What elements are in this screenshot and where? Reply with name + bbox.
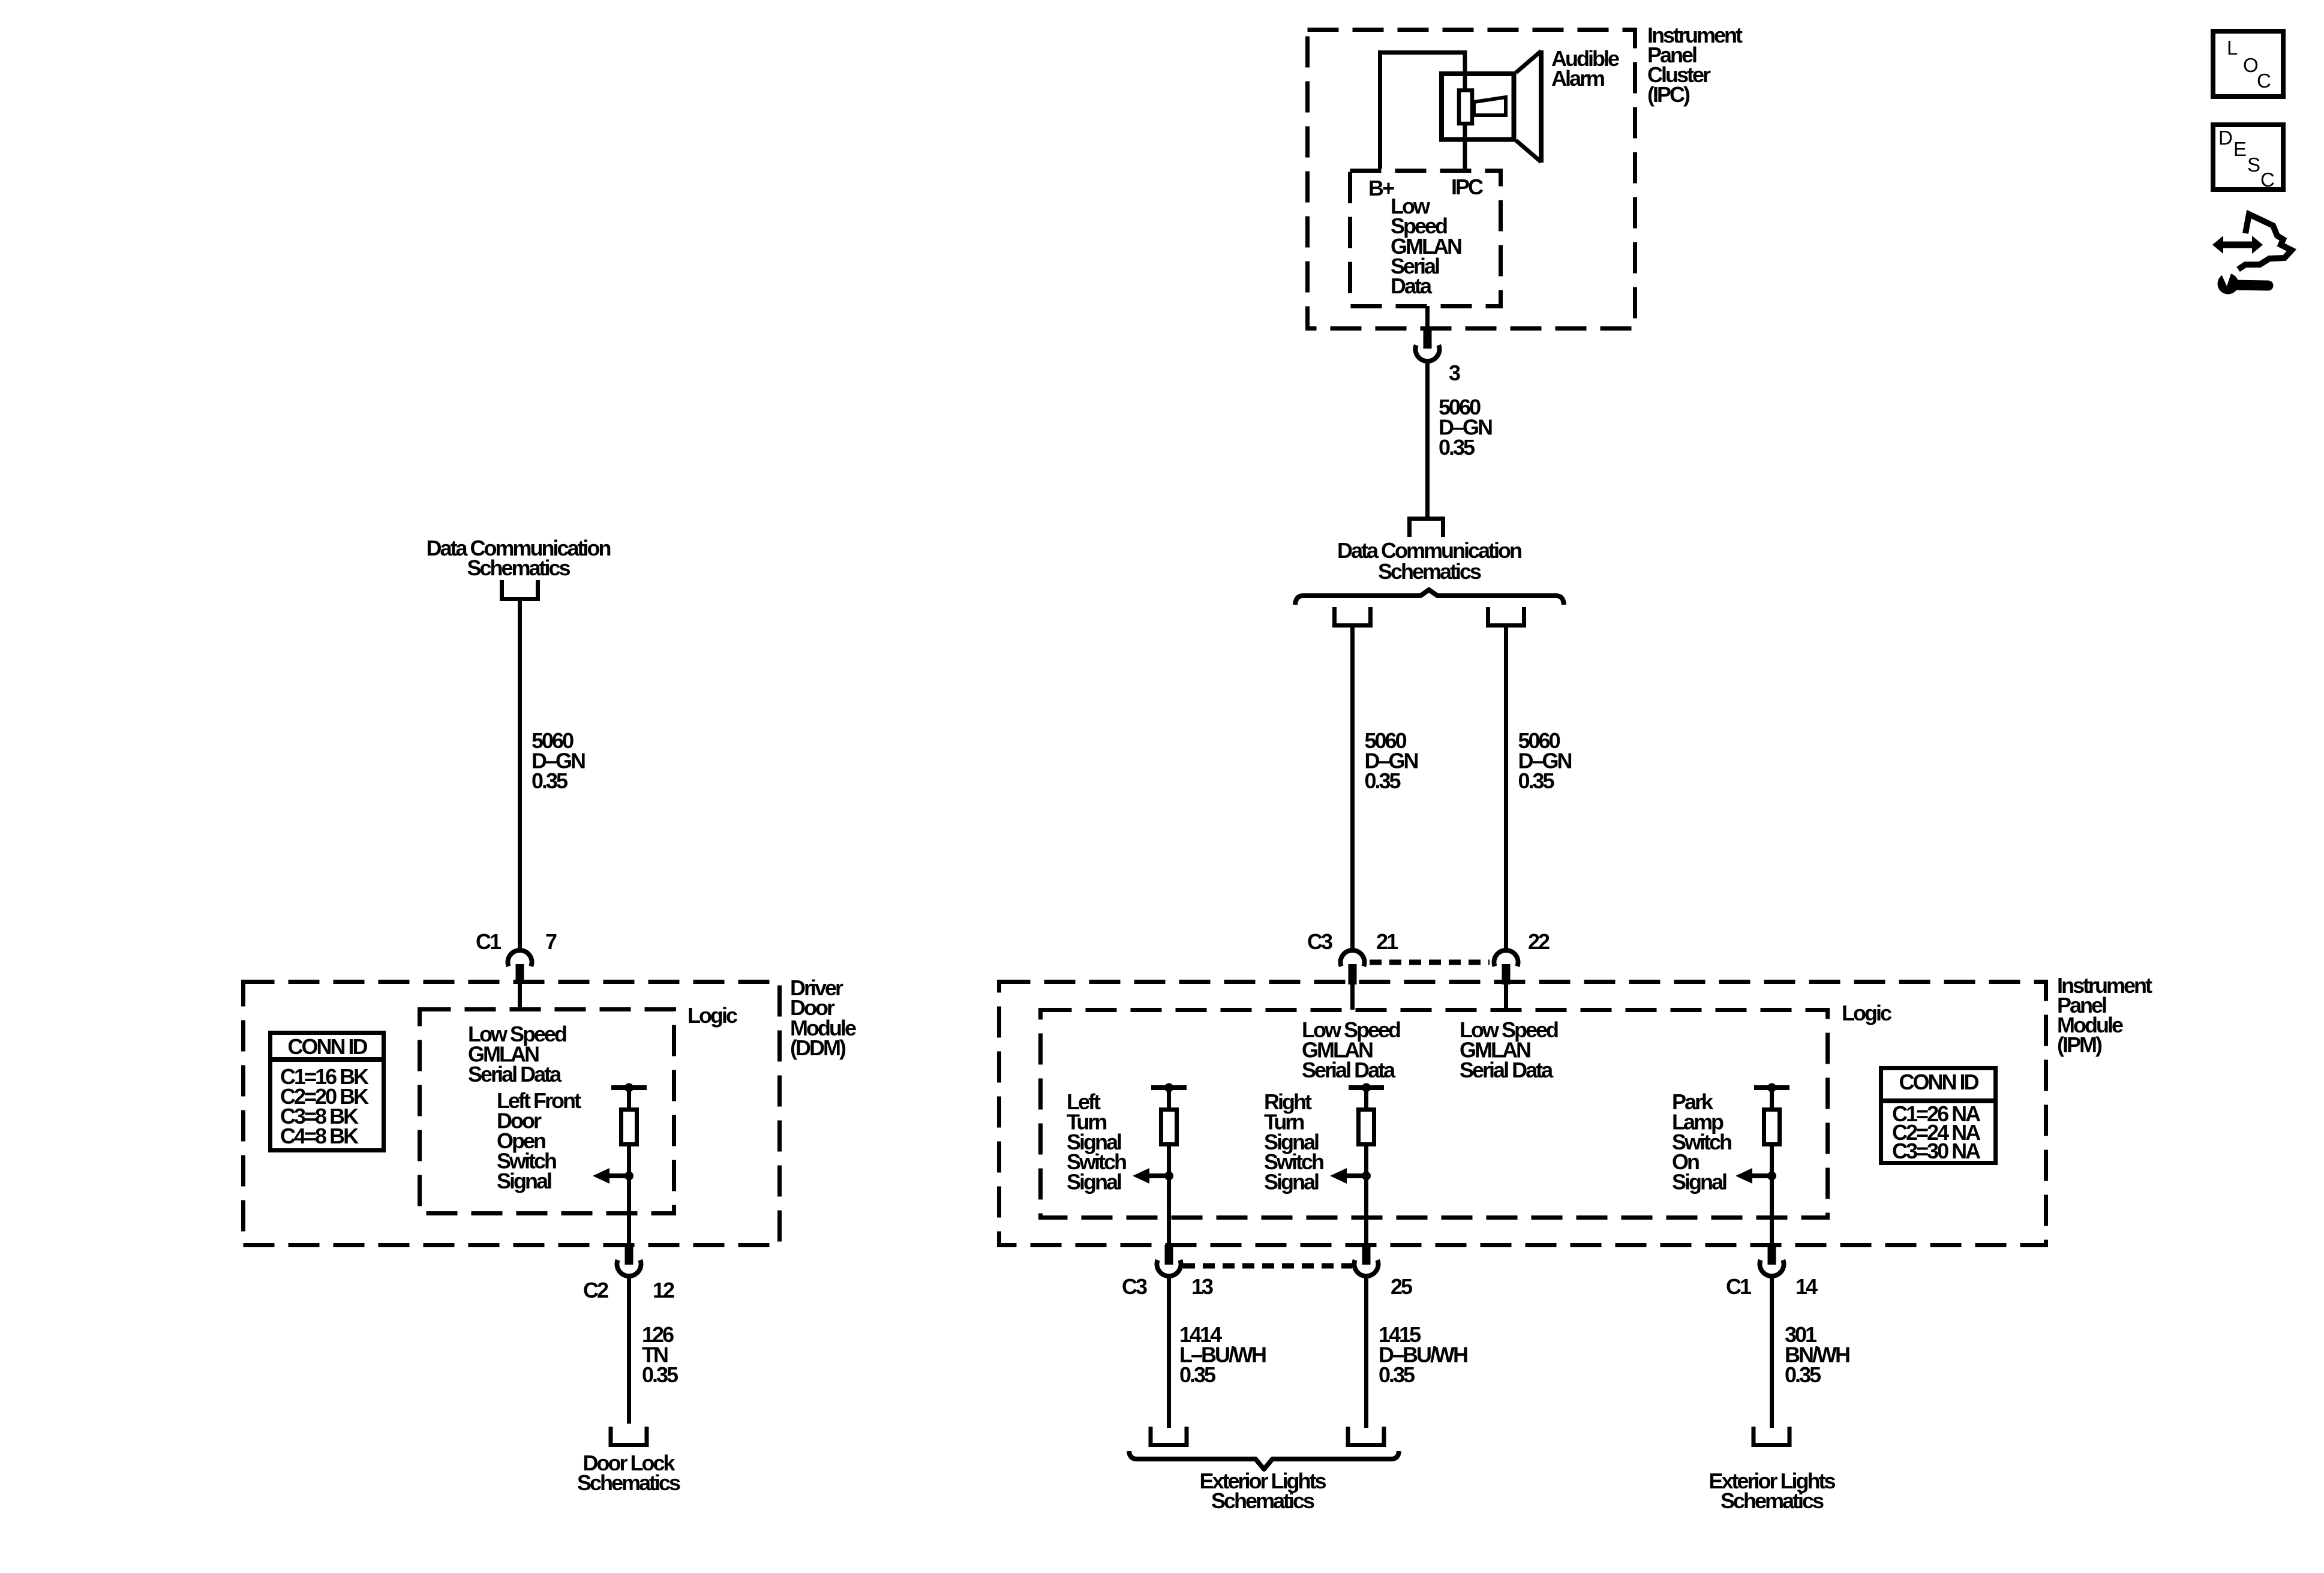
net label: B+ <box>1368 176 1394 200</box>
svg-text:C2: C2 <box>583 1278 608 1302</box>
wire: B+ feed loop to audible alarm <box>1380 53 1466 169</box>
svg-text:0.35: 0.35 <box>1518 769 1555 793</box>
off-page connector: wire 1415 to Exterior Lights Schematics <box>1348 1427 1384 1445</box>
pin number 21 <box>1376 929 1398 954</box>
module box: Instrument Panel Module (IPM) <box>999 982 2046 1245</box>
label: Data Communication Schematics (middle) <box>1337 538 1521 584</box>
legend box: LOC <box>2213 31 2283 97</box>
svg-text:7: 7 <box>545 929 557 954</box>
label: Instrument Panel Cluster (IPC) <box>1647 23 1743 107</box>
svg-text:Schematics: Schematics <box>1378 559 1481 584</box>
pin number 13 <box>1191 1274 1213 1299</box>
connector C3 internal tie (dashed, bottom) <box>1183 1263 1352 1269</box>
svg-text:Logic: Logic <box>1842 1001 1891 1025</box>
svg-text:0.35: 0.35 <box>1785 1362 1821 1387</box>
wire: C1 pin 7 into DDM logic <box>518 981 522 1009</box>
label: Exterior Lights Schematics (middle) <box>1199 1469 1326 1513</box>
wire label: 5060 D-GN 0.35 <box>1439 395 1492 460</box>
inner dashed box: IPC serial data logic block <box>1350 171 1501 307</box>
svg-text:CONN ID: CONN ID <box>1899 1070 1979 1094</box>
svg-text:C: C <box>2257 70 2271 92</box>
svg-text:(IPM): (IPM) <box>2057 1032 2102 1057</box>
svg-text:Alarm: Alarm <box>1551 66 1604 91</box>
off-page connector: serial data branch 1 (below brace) <box>1335 607 1371 626</box>
label: Logic (DDM) <box>687 1003 737 1028</box>
module box: Instrument Panel Cluster (IPC) <box>1308 30 1635 329</box>
label: Instrument Panel Module (IPM) <box>2057 973 2152 1057</box>
wire: C3 pin 22 into IPM logic <box>1504 981 1508 1010</box>
pin number 12 <box>653 1278 674 1302</box>
wire: C3 pin 21 into IPM logic <box>1350 981 1355 1010</box>
net label: IPC <box>1451 175 1484 199</box>
connector C3 pin 22 (IPM): female terminal <box>1494 950 1518 966</box>
connector C3 pin 25 (IPM): female terminal <box>1355 1260 1379 1276</box>
svg-text:22: 22 <box>1528 929 1550 954</box>
junction dot (park lamp tap) <box>1767 1172 1776 1181</box>
off-page connector: to Data Communication Schematics (top) <box>1410 519 1443 538</box>
svg-text:25: 25 <box>1391 1274 1413 1299</box>
svg-text:D: D <box>2218 127 2233 149</box>
svg-text:Schematics: Schematics <box>1211 1488 1314 1513</box>
wire label: 1414 L-BU/WH 0.35 <box>1179 1322 1266 1387</box>
junction dot (park lamp rail) <box>1767 1083 1776 1092</box>
junction dot (left turn tap) <box>1164 1172 1173 1181</box>
svg-text:L: L <box>2227 37 2238 59</box>
connector C3 pin 13 (IPM): female terminal <box>1157 1260 1181 1276</box>
svg-text:(IPC): (IPC) <box>1647 82 1690 107</box>
net label: Low Speed GMLAN Serial Data (pin 22) <box>1460 1017 1558 1082</box>
connector C1 pin 14 (IPM): female terminal <box>1760 1260 1784 1276</box>
svg-text:S: S <box>2247 154 2260 176</box>
wire: resistor R1 to C2 pin 12 <box>627 1146 631 1246</box>
resistor R1 (door open switch pull-up) <box>621 1110 637 1145</box>
svg-text:Serial Data: Serial Data <box>1302 1058 1396 1082</box>
wire 5060 D-GN 0.35 (branch 2 to IPM C3 pin 22) <box>1504 628 1508 950</box>
connector C3 internal tie (dashed, top) <box>1370 960 1490 965</box>
net label: Low Speed GMLAN Serial Data (pin 21) <box>1302 1017 1400 1082</box>
svg-text:Signal: Signal <box>497 1169 551 1193</box>
connector C2 pin 12 (DDM): female terminal <box>617 1260 641 1276</box>
off-page connector: wire 1414 to Exterior Lights Schematics <box>1151 1427 1187 1445</box>
wire: rail to resistor R4 <box>1770 1088 1774 1109</box>
connector C1 pin 7 (DDM): male stub <box>516 964 524 983</box>
pull-up rail bar (left turn input) <box>1151 1085 1187 1090</box>
connector label C1 (IPM bottom) <box>1726 1274 1752 1299</box>
net label: Low Speed GMLAN Serial Data (DDM) <box>468 1022 566 1086</box>
wire 5060 D-GN 0.35 (IPC pin 3 down) <box>1425 362 1430 517</box>
resistor R4 (park lamp switch pull-up) <box>1764 1110 1780 1145</box>
svg-text:Signal: Signal <box>1672 1170 1727 1194</box>
pin number 14 <box>1795 1274 1818 1299</box>
svg-text:E: E <box>2233 138 2247 160</box>
connector C3 pin 22 (IPM): male stub <box>1502 964 1511 984</box>
wire label: 5060 D-GN 0.35 (branch 2) <box>1518 728 1572 793</box>
wire 5060 D-GN 0.35 (to DDM C1 pin 7) <box>518 601 522 950</box>
connector C3 pin 25 (IPM): male stub <box>1362 1245 1371 1265</box>
junction dot (DDM rail) <box>624 1083 633 1092</box>
wire: IPC serial data lead inside box <box>1425 306 1430 328</box>
svg-text:Data: Data <box>1391 274 1433 298</box>
service icon: wrench <box>2218 270 2269 295</box>
wire 1415 D-BU/WH 0.35 <box>1364 1277 1368 1428</box>
signal tap arrow (park lamp switch on signal) <box>1736 1168 1772 1184</box>
svg-text:Signal: Signal <box>1264 1170 1319 1194</box>
svg-text:C: C <box>2260 169 2275 191</box>
signal tap arrow (left front door open switch signal) <box>593 1168 629 1184</box>
connector pin 3 (IPC): female terminal <box>1416 345 1440 361</box>
svg-text:21: 21 <box>1376 929 1398 954</box>
off-page connector: serial data branch 2 (below brace) <box>1488 607 1524 626</box>
svg-text:Signal: Signal <box>1067 1170 1121 1194</box>
wire: resistor R3 down to C3 pin 25 <box>1364 1146 1368 1246</box>
wire label: 5060 D-GN 0.35 (branch 1) <box>1365 728 1418 793</box>
junction dot (DDM signal tap) <box>624 1172 633 1181</box>
off-page connector: from Data Communication Schematics (left) <box>502 580 538 599</box>
connector C1 pin 7 (DDM): female terminal <box>508 950 532 966</box>
pin number 22 <box>1528 929 1550 954</box>
svg-text:0.35: 0.35 <box>1379 1362 1415 1387</box>
brace: exterior lights schematics group <box>1129 1451 1399 1469</box>
svg-text:Schematics: Schematics <box>467 556 570 580</box>
label: Park Lamp Switch On Signal <box>1672 1089 1731 1194</box>
logic block box (IPM) <box>1041 1010 1828 1218</box>
wire label: 301 BN/WH 0.35 <box>1785 1322 1849 1387</box>
CONN ID table (DDM) <box>268 1033 386 1151</box>
connector C3 pin 13 (IPM): male stub <box>1165 1245 1173 1265</box>
pull-up rail bar (right turn input) <box>1349 1085 1384 1090</box>
svg-text:0.35: 0.35 <box>642 1362 678 1387</box>
wire label: 1415 D-BU/WH 0.35 <box>1379 1322 1467 1387</box>
net label: Low Speed GMLAN Serial Data (IPC) <box>1391 194 1461 298</box>
junction dot (right turn tap) <box>1362 1172 1371 1181</box>
svg-text:O: O <box>2243 54 2259 76</box>
wire label: 5060 D-GN 0.35 (left) <box>532 728 585 793</box>
pin number 25 <box>1391 1274 1413 1299</box>
svg-text:C1: C1 <box>476 929 502 954</box>
logic block box (DDM) <box>420 1010 674 1214</box>
junction dot (right turn rail) <box>1362 1083 1371 1092</box>
connector C3 pin 21 (IPM): male stub <box>1349 964 1357 984</box>
connector pin 3 (IPC): male stub <box>1424 326 1432 349</box>
label: Left Front Door Open Switch Signal <box>497 1088 581 1193</box>
label: Driver Door Module (DDM) <box>790 975 856 1060</box>
wire 126 TN 0.35 <box>627 1277 631 1424</box>
svg-text:Serial Data: Serial Data <box>1460 1058 1554 1082</box>
svg-text:0.35: 0.35 <box>1365 769 1401 793</box>
connector C2 pin 12 (DDM): male stub <box>625 1245 633 1265</box>
connector label C3 (IPM bottom) <box>1122 1274 1147 1299</box>
svg-text:0.35: 0.35 <box>532 769 568 793</box>
wire: rail to resistor R1 <box>627 1088 631 1109</box>
wire 301 BN/WH 0.35 <box>1770 1277 1774 1428</box>
svg-text:C4=8 BK: C4=8 BK <box>280 1124 359 1148</box>
label: Right Turn Signal Switch Signal <box>1264 1089 1323 1194</box>
svg-text:13: 13 <box>1191 1274 1213 1299</box>
svg-text:C3: C3 <box>1122 1274 1147 1299</box>
brace: data communication bus tap <box>1295 590 1564 605</box>
svg-text:12: 12 <box>653 1278 674 1302</box>
svg-text:Schematics: Schematics <box>1721 1488 1824 1513</box>
pull-up rail bar (park lamp input) <box>1754 1085 1789 1090</box>
svg-text:14: 14 <box>1795 1274 1818 1299</box>
connector label C1 (DDM) <box>476 929 502 954</box>
label: Audible Alarm <box>1551 46 1619 91</box>
svg-text:C3=30 NA: C3=30 NA <box>1892 1139 1981 1163</box>
CONN ID table (IPM) <box>1879 1068 1998 1164</box>
wire: rail to resistor R2 <box>1167 1088 1171 1109</box>
pin number 7 <box>545 929 557 954</box>
legend box: DESC <box>2213 125 2283 191</box>
label: Door Lock Schematics <box>577 1451 680 1495</box>
svg-text:C1: C1 <box>1726 1274 1752 1299</box>
label: Exterior Lights Schematics (right) <box>1709 1469 1835 1513</box>
module box: Driver Door Module (DDM) <box>244 982 780 1245</box>
svg-text:Schematics: Schematics <box>577 1470 680 1495</box>
connector label C3 (IPM top) <box>1307 929 1332 954</box>
pull-up rail bar (DDM switch input) <box>611 1085 647 1090</box>
off-page connector: wire 301 to Exterior Lights Schematics <box>1753 1427 1789 1445</box>
svg-text:IPC: IPC <box>1451 175 1484 199</box>
svg-text:C3: C3 <box>1307 929 1332 954</box>
label: Logic (IPM) <box>1842 1001 1891 1025</box>
resistor R2 (left turn switch pull-up) <box>1161 1110 1177 1145</box>
svg-text:(DDM): (DDM) <box>790 1035 846 1060</box>
label: Data Communication Schematics (left) <box>426 536 610 580</box>
pin number 3 <box>1449 361 1460 385</box>
svg-text:Serial Data: Serial Data <box>468 1062 562 1086</box>
wire: resistor R2 down to C3 pin 13 <box>1167 1146 1171 1246</box>
svg-text:Logic: Logic <box>687 1003 737 1028</box>
svg-text:0.35: 0.35 <box>1179 1362 1216 1387</box>
connector C3 pin 21 (IPM): female terminal <box>1341 950 1365 966</box>
svg-text:0.35: 0.35 <box>1439 435 1475 460</box>
off-page connector: to Door Lock Schematics <box>611 1427 647 1445</box>
connector C1 pin 14 (IPM): male stub <box>1768 1245 1776 1265</box>
signal tap arrow (left turn signal switch signal) <box>1133 1168 1169 1184</box>
wire 5060 D-GN 0.35 (branch 1 to IPM C3 pin 21) <box>1350 628 1355 950</box>
junction dot (left turn rail) <box>1164 1083 1173 1092</box>
wire 1414 L-BU/WH 0.35 <box>1167 1277 1171 1428</box>
service icon: pointer outline <box>2238 214 2292 269</box>
label: Left Turn Signal Switch Signal <box>1067 1089 1126 1194</box>
svg-text:CONN ID: CONN ID <box>288 1034 368 1059</box>
svg-text:3: 3 <box>1449 361 1460 385</box>
wire: rail to resistor R3 <box>1364 1088 1368 1109</box>
connector label C2 <box>583 1278 608 1302</box>
resistor R3 (right turn switch pull-up) <box>1359 1110 1374 1145</box>
wire: resistor R4 down to C1 pin 14 <box>1770 1146 1774 1246</box>
audible alarm sounder U1 <box>1442 50 1541 163</box>
signal tap arrow (right turn signal switch signal) <box>1330 1168 1367 1184</box>
service icon: double arrow <box>2212 236 2263 254</box>
wire label: 126 TN 0.35 <box>642 1322 678 1387</box>
